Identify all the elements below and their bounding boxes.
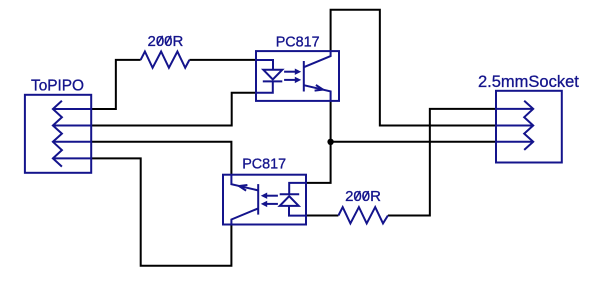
connector J1 pin 1 <box>53 108 91 110</box>
wire ToPIPO pin4 to U2 collector <box>91 158 231 265</box>
wire ToPIPO pin2 to U1 cathode <box>91 93 256 126</box>
wire U1 collector to socket pin2 <box>331 10 496 126</box>
wire 200R to socket pin1 <box>388 109 496 216</box>
resistor R1 200R <box>141 52 190 68</box>
connector J2 socket box <box>496 91 562 163</box>
wire ToPIPO pin1 to 200R <box>91 60 140 109</box>
connector J2 pin 3 <box>496 141 533 143</box>
connector J2 pin 2 <box>496 125 533 127</box>
resistor R2 200R <box>338 207 388 223</box>
wire U2 anode to 200R <box>306 215 338 217</box>
label slash zero 1 top <box>157 36 162 45</box>
svg-text:200R: 200R <box>148 33 184 50</box>
svg-text:PC817: PC817 <box>276 35 320 51</box>
label slash zero 2 bottom <box>363 191 368 200</box>
connector J2 pin 1 <box>496 108 533 110</box>
wire ToPIPO pin3 to U2 emitter <box>91 142 231 175</box>
optocoupler U1 PC817 top <box>256 51 339 101</box>
label slash zero 2 top <box>166 36 171 45</box>
wire U1 emitter to U2 cathode <box>306 101 331 183</box>
junction node <box>327 139 333 145</box>
wire node to socket pin3 <box>331 141 496 143</box>
label slash zero 1 bottom <box>355 191 360 200</box>
connector J1 zigzag arrows <box>53 101 62 167</box>
svg-text:ToPIPO: ToPIPO <box>31 77 84 94</box>
svg-text:PC817: PC817 <box>242 157 286 173</box>
connector J1 pin 3 <box>53 141 91 143</box>
svg-text:200R: 200R <box>345 188 381 205</box>
connector J2 zigzag arrows <box>524 101 533 150</box>
svg-text:2.5mmSocket: 2.5mmSocket <box>478 73 579 91</box>
wire 200R to U1 anode <box>189 59 256 61</box>
connector J1 ToPIPO box <box>25 95 91 173</box>
optocoupler U2 PC817 bottom (rotated 180) <box>223 175 306 225</box>
connector J1 pin 4 <box>53 157 91 159</box>
connector J1 pin 2 <box>53 125 91 127</box>
